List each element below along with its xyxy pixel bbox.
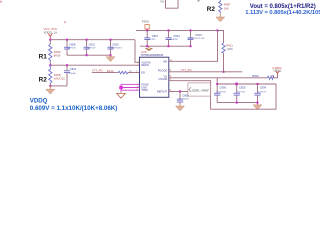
- svg-text:R816: R816: [252, 74, 259, 78]
- op-amp U29 IC box TPS51200: [140, 57, 169, 97]
- wire stub top-left corner: [0, 1, 2, 3]
- svg-text:VOSNS: VOSNS: [158, 78, 167, 81]
- resistor R2 (top right): [207, 0, 231, 13]
- svg-text:C834: C834: [260, 86, 267, 90]
- svg-text:10uF/10V: 10uF/10V: [86, 48, 96, 50]
- svg-text:10K: 10K: [224, 6, 229, 10]
- svg-text:TPAD: TPAD: [141, 89, 148, 92]
- node at R2 bottom: [49, 85, 51, 87]
- wire resistor to VDDQ flag: [274, 73, 278, 77]
- wire output cap bottom rail: [217, 102, 257, 104]
- pin numbers left side: [136, 62, 139, 92]
- svg-text:C815: C815: [112, 43, 119, 47]
- svg-text:VTT_PG: VTT_PG: [181, 68, 192, 72]
- wire VO output: [169, 77, 268, 79]
- svg-text:C841: C841: [70, 67, 77, 71]
- power flag arrow below R2: [216, 13, 225, 22]
- svg-text:100nF/025V: 100nF/025V: [177, 98, 189, 100]
- capacitor C835: [234, 84, 246, 103]
- resistor R412 (EN series): [107, 69, 132, 74]
- wire top rail (VDDQ input rail): [50, 39, 135, 41]
- net VTT_PG label (EN wire): [92, 69, 103, 73]
- svg-text:R412: R412: [107, 69, 114, 73]
- wire bottom rail of 5V cap bank: [140, 45, 191, 47]
- net label VDDQ (bottom formula): [30, 97, 48, 104]
- svg-text:REFOUT: REFOUT: [157, 91, 168, 94]
- wire from flag to rail: [49, 36, 51, 39]
- capacitor C852 on REFOUT: [177, 91, 190, 104]
- wire R2 bottom to C841 bottom: [50, 85, 67, 87]
- svg-text:R2: R2: [39, 76, 48, 83]
- svg-text:C827: C827: [152, 34, 159, 38]
- svg-text:VIN: VIN: [163, 61, 167, 64]
- resistor R1 (8K06): [39, 40, 61, 65]
- pin number 3 (EN): [136, 71, 138, 73]
- junction dots on 5V rail: [146, 29, 218, 31]
- ground arrow below output caps: [253, 105, 262, 110]
- resistor R411 105K: [222, 43, 233, 72]
- svg-text:100nF/025V 16V: 100nF/025V 16V: [188, 38, 205, 40]
- wire divider node to REFIN: [50, 64, 139, 66]
- port DDR1_VREF: [188, 83, 211, 96]
- junction dot on PGOOD wire: [223, 71, 225, 73]
- junction dots on top rail: [49, 39, 111, 41]
- svg-text:1000pF: 1000pF: [69, 73, 77, 75]
- net label P5V5 port: [142, 19, 149, 30]
- svg-text:10uF/10V: 10uF/10V: [216, 91, 226, 93]
- net label VCC_5V0 / VDDQ_1A: [44, 27, 58, 34]
- junction dots bottom: [236, 102, 259, 104]
- capacitor C827: [144, 30, 159, 46]
- wire VIN riser: [169, 30, 218, 61]
- svg-text:Vout = 0.805x(1+R1/R2): Vout = 0.805x(1+R1/R2): [250, 4, 316, 10]
- capacitor C836: [214, 84, 226, 103]
- svg-text:R1: R1: [39, 53, 48, 60]
- svg-text:SW..: SW..: [160, 0, 166, 3]
- svg-text:VDDQ: VDDQ: [273, 68, 281, 72]
- capacitor C819: [188, 30, 205, 46]
- pin numbers right side: [170, 60, 173, 92]
- svg-text:REFIN: REFIN: [141, 64, 149, 67]
- wire output cap top rail: [217, 83, 276, 85]
- wire return loop (VOSNS to VDDQ rail): [211, 84, 276, 109]
- svg-text:C824: C824: [173, 34, 180, 38]
- svg-text:C836: C836: [219, 86, 226, 90]
- wire PGOOD: [169, 71, 243, 73]
- svg-text:C835: C835: [239, 86, 246, 90]
- svg-text:8K06: 8K06: [54, 54, 61, 58]
- ground arrow below magenta net: [117, 92, 126, 99]
- svg-text:R2: R2: [207, 6, 216, 13]
- junction dot at C841 tap: [66, 64, 68, 66]
- power flag at VDD label: [48, 34, 52, 37]
- wire rail to 105K resistor: [218, 30, 224, 43]
- resistor R2 (10K lower divider): [39, 65, 66, 86]
- svg-text:C819: C819: [195, 33, 202, 37]
- svg-text:1uF/6035V: 1uF/6035V: [167, 39, 178, 41]
- svg-text:10uF/10V: 10uF/10V: [67, 48, 77, 50]
- formula text 1.113V: [245, 10, 320, 16]
- capacitor C824: [166, 30, 181, 46]
- ground net (highlighted magenta) PGND/GND/TPAD: [119, 84, 139, 91]
- svg-text:10uF/10V: 10uF/10V: [146, 39, 156, 41]
- svg-text:C852: C852: [182, 93, 189, 97]
- wire EN: [92, 72, 118, 74]
- svg-text:1.113V = 0.805x(1+40.2K/105: 1.113V = 0.805x(1+40.2K/105: [245, 10, 320, 16]
- svg-text:100nF/025V: 100nF/025V: [110, 48, 122, 50]
- svg-text:DDR1_VREF: DDR1_VREF: [192, 89, 210, 93]
- capacitor C831: [84, 40, 97, 56]
- reference designator U29: [141, 50, 164, 57]
- junction dot on REFOUT: [179, 90, 181, 92]
- capacitor C841 1000pF: [64, 65, 77, 86]
- formula text Vout: [250, 4, 316, 10]
- junction dots on output cap rail: [216, 83, 258, 86]
- resistor R816 (VO to VDDQ sense): [252, 74, 274, 79]
- wire resistor to EN pin: [128, 72, 140, 74]
- formula text 0.609V: [30, 105, 118, 112]
- svg-text:0.609V = 1.1x10K/(10K+8.06K): 0.609V = 1.1x10K/(10K+8.06K): [30, 105, 118, 112]
- svg-text:EN: EN: [141, 72, 145, 75]
- svg-text:P5V5: P5V5: [142, 19, 149, 23]
- capacitor C828: [64, 40, 77, 56]
- svg-text:TPS51200DRCR: TPS51200DRCR: [141, 53, 164, 57]
- junction dots: [146, 45, 191, 47]
- wire stub left: [64, 21, 66, 23]
- wire U-loop top: [160, 0, 200, 8]
- wire 5V rail: [136, 29, 224, 31]
- node REFIN divider junction: [49, 64, 51, 66]
- svg-text:10K/G22: 10K/G22: [54, 77, 65, 81]
- svg-text:105K: 105K: [226, 47, 233, 51]
- ground symbol under 5V cap bank: [145, 46, 152, 50]
- junction dots bottom rail: [86, 54, 112, 56]
- ground arrow below cap bank: [106, 55, 115, 61]
- svg-text:VTT_PG: VTT_PG: [92, 69, 103, 73]
- svg-text:C831: C831: [89, 43, 96, 47]
- svg-text:VDDQ_1A: VDDQ_1A: [44, 30, 58, 34]
- svg-text:C828: C828: [69, 43, 76, 47]
- svg-text:10uF/10V: 10uF/10V: [236, 91, 246, 93]
- net VTT_PG label (PGOOD): [181, 68, 192, 72]
- wire VO down to output cap rail: [216, 78, 218, 84]
- wire REFOUT: [169, 90, 188, 92]
- svg-text:10uF/10V: 10uF/10V: [257, 91, 267, 93]
- svg-text:0R: 0R: [271, 75, 274, 77]
- capacitor C834: [254, 84, 266, 105]
- svg-text:VDDQ: VDDQ: [30, 97, 48, 104]
- wire bottom rail of input cap bank: [67, 54, 111, 56]
- svg-text:PGOOD: PGOOD: [158, 70, 168, 73]
- ground arrow below C852: [176, 104, 185, 111]
- wire to VLDOIN pin: [135, 40, 140, 63]
- ground arrow below divider: [46, 86, 55, 94]
- wire VOSNS: [169, 81, 211, 110]
- capacitor C815: [108, 40, 123, 56]
- power flag VDDQ (right): [273, 66, 282, 73]
